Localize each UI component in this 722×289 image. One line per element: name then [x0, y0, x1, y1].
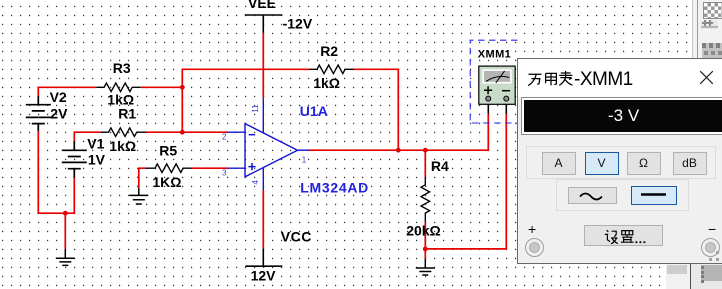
value 1KΩ R5 [152, 174, 181, 190]
label R1 [118, 106, 136, 122]
pin number 4 [251, 180, 260, 185]
op-amp pin 4 stub [262, 168, 264, 191]
label VCC [281, 228, 312, 244]
wire R2 to output node [354, 69, 398, 150]
pin number 1 [302, 155, 307, 164]
wire R4 top [424, 150, 426, 177]
wire V2 bottom to ground node [38, 131, 74, 213]
multimeter minus mark [502, 90, 510, 92]
value 1V [88, 151, 106, 167]
node A junction [180, 85, 185, 90]
wire R4 bottom to node F [424, 222, 426, 259]
dialog title CJK drawn as SVG + latin text [527, 70, 587, 88]
right instruments toolbar strip [692, 0, 722, 58]
svg-text:2V: 2V [50, 106, 68, 122]
multimeter terminal plus [486, 96, 491, 101]
op-amp output pin stub [298, 149, 309, 151]
value 1kΩ R1 [109, 138, 136, 154]
wire node B to ground [64, 213, 66, 249]
ground GND3 [416, 259, 435, 275]
power VCC bar [245, 248, 282, 266]
bottom right scrollbar fragment [666, 264, 690, 289]
multimeter plus mark [484, 86, 492, 94]
wire R5 to op-amp non-inverting input [192, 167, 229, 169]
plus terminal label [528, 221, 536, 237]
settings button [584, 225, 663, 246]
XMM1 pin stubs [488, 104, 506, 113]
value 1kΩ R3 [107, 91, 134, 107]
ground GND1 [56, 249, 75, 265]
node C junction [180, 130, 185, 135]
toolbar icon fragment 3 [702, 43, 722, 58]
button V selected [585, 152, 619, 176]
toolbar icon fragment 2 [701, 20, 718, 29]
resistor R3 [96, 83, 141, 92]
button sine [568, 187, 618, 204]
minus terminal label [708, 221, 716, 237]
ground GND2 [129, 188, 148, 204]
svg-text:1: 1 [302, 155, 307, 164]
svg-text:1KΩ: 1KΩ [152, 174, 181, 190]
svg-text:V1: V1 [87, 136, 104, 152]
label V1 [87, 136, 104, 152]
button A [542, 152, 576, 175]
op-amp pin 11 stub [262, 98, 264, 133]
wire R1 to node C [146, 131, 182, 133]
battery V2 [26, 96, 51, 131]
svg-text:V2: V2 [50, 89, 67, 105]
svg-text:-12V: -12V [283, 16, 313, 32]
pin number 3 [222, 169, 227, 178]
label V2 [50, 89, 67, 105]
multimeter needle arc [486, 76, 509, 81]
op-amp U1A triangle [245, 124, 298, 177]
wire output node to XMM1 plus [309, 114, 489, 151]
plus terminal jack [525, 238, 544, 257]
multimeter dialog window [517, 58, 722, 264]
pin number 2 [222, 133, 227, 142]
minus terminal jack [701, 238, 720, 257]
value 12V [251, 267, 277, 283]
svg-text:R2: R2 [320, 43, 338, 59]
svg-text:1kΩ: 1kΩ [109, 138, 136, 154]
signal group box [556, 179, 689, 210]
button DC selected [631, 186, 678, 205]
svg-text:VEE: VEE [248, 0, 276, 11]
node B junction [63, 211, 68, 216]
label VEE [248, 0, 276, 11]
wire node C to op-amp inverting input [182, 131, 228, 133]
svg-text:20kΩ: 20kΩ [406, 222, 441, 238]
svg-text:U1A: U1A [300, 103, 328, 119]
value -12V [283, 16, 313, 32]
svg-text:12V: 12V [251, 267, 277, 283]
toolbar icon fragment 1 [703, 2, 722, 20]
svg-text:XMM1: XMM1 [478, 49, 511, 61]
wire XMM1 minus down and across to node F [425, 114, 506, 249]
dialog close button [699, 70, 714, 85]
wire V2 top to R3 [38, 87, 96, 96]
node F junction [423, 247, 428, 252]
op-amp minus sign [249, 134, 255, 136]
bottom right panel fragment [691, 264, 722, 289]
op-amp plus sign [248, 163, 255, 170]
value 1kΩ R2 [313, 75, 340, 91]
multimeter display window [482, 69, 511, 83]
resistor R1 [101, 128, 146, 137]
svg-text:11: 11 [251, 104, 260, 113]
label R3 [113, 60, 131, 76]
label R4 [431, 158, 449, 174]
XMM1 selection dashed box [470, 40, 517, 123]
wire VCC to op-amp pin 4 [262, 190, 264, 248]
wire R5 left to ground [139, 168, 146, 188]
wire R3 to node A [141, 86, 183, 88]
wire node A vertical and feedback branch [182, 69, 309, 132]
multimeter terminal minus [504, 96, 509, 101]
resistor R4 [421, 177, 430, 222]
label XMM1 [478, 49, 511, 61]
svg-text:VCC: VCC [281, 228, 312, 244]
svg-text:4: 4 [251, 180, 260, 185]
button Ohm [627, 152, 661, 175]
label U1A [300, 103, 328, 119]
svg-text:R1: R1 [118, 106, 136, 122]
svg-text:R3: R3 [113, 60, 131, 76]
label R2 [320, 43, 338, 59]
svg-text:LM324AD: LM324AD [300, 180, 369, 196]
svg-text:1V: 1V [88, 151, 106, 167]
bottom right splitter line [690, 264, 692, 289]
pin number 11 [251, 104, 260, 113]
svg-text:3: 3 [222, 169, 227, 178]
multimeter needle [496, 71, 505, 83]
resistor R5 [146, 164, 192, 173]
label R5 [159, 143, 177, 159]
svg-text:R5: R5 [159, 143, 177, 159]
wire VEE to op-amp pin 11 [262, 33, 264, 98]
node E junction R4 top [423, 148, 428, 153]
svg-text:2: 2 [222, 133, 227, 142]
value 2V [50, 106, 68, 122]
mode group box [526, 146, 716, 179]
resistor R2 [309, 65, 354, 74]
op-amp non-inverting pin stub [228, 167, 245, 169]
label LM324AD [300, 180, 369, 196]
value 20kΩ [406, 222, 441, 238]
resize grip [716, 251, 719, 254]
wire V1 top to R1 [74, 132, 101, 141]
power VEE bar [245, 15, 282, 33]
op-amp inverting pin stub [228, 131, 245, 133]
node D junction R2 feedback [396, 148, 401, 153]
svg-text:1kΩ: 1kΩ [313, 75, 340, 91]
svg-text:R4: R4 [431, 158, 449, 174]
measurement display [521, 97, 722, 135]
button dB [673, 152, 707, 175]
battery V1 [62, 141, 87, 178]
multimeter XMM1 icon body [479, 66, 515, 104]
